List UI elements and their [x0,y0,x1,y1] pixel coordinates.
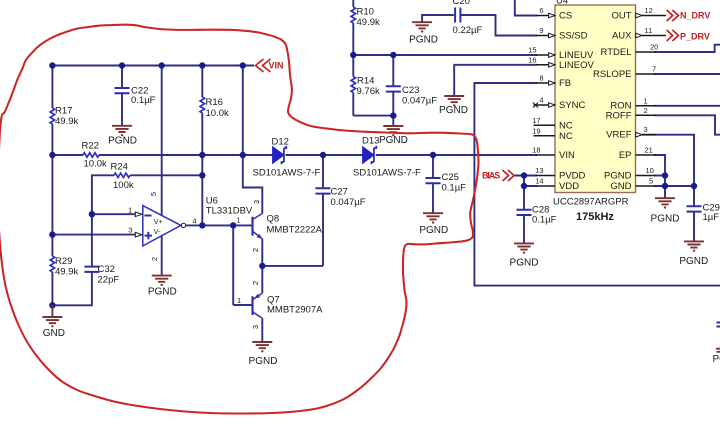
wire VIN to diode row [242,66,244,156]
capacitor C28 [517,210,532,215]
wire R16 branch [201,66,203,226]
svg-text:MMBT2907A: MMBT2907A [267,305,323,316]
svg-text:1µF: 1µF [703,212,720,223]
svg-text:0.1µF: 0.1µF [442,183,467,194]
wire C32 top [91,214,93,267]
IC left pin numbers [528,6,543,186]
wire Q8 collector jog [243,155,262,214]
svg-text:PVDD: PVDD [559,171,586,182]
svg-text:Q8: Q8 [267,214,280,225]
svg-text:1: 1 [237,296,241,305]
ground PGND under Q7 [252,342,272,351]
wire GND pin [654,185,694,187]
wire D13 cathode to IC VIN [376,154,537,156]
capacitor C32 [84,267,99,272]
wire LINEUV row [353,54,537,56]
svg-text:R17: R17 [55,106,72,117]
wire left rail middle [51,124,53,256]
wire R14/C23 bottom link [353,115,393,117]
svg-text:LINEOV: LINEOV [559,60,595,71]
svg-text:SYNC: SYNC [559,100,586,111]
IC right pin stubs [636,16,667,187]
IC left pin names [559,11,595,193]
capacitor C29 [687,206,702,211]
wire C20 left to ground [422,15,454,22]
svg-text:PGND: PGND [439,105,468,116]
svg-text:1: 1 [128,205,132,214]
svg-text:CS: CS [559,11,572,22]
svg-text:16: 16 [528,55,536,64]
net label P_DRV [667,30,710,42]
svg-text:3: 3 [644,125,648,134]
wire op-amp pin1 input [92,213,135,215]
ground PGND under C28 [514,243,534,252]
wire Q8 emitter down [261,239,263,266]
wire op-amp pin2 to ground [161,236,163,276]
wire R14 [352,55,354,116]
svg-text:BIAS: BIAS [482,171,500,181]
wire RON [654,105,720,107]
svg-text:SS/SD: SS/SD [559,31,588,42]
svg-text:RTDEL: RTDEL [601,47,632,58]
ground PGND under C25 [423,213,443,222]
svg-text:PGND: PGND [604,171,632,182]
svg-text:5: 5 [649,177,653,186]
resistor R10 [351,7,355,23]
wire FB feedback [474,83,720,286]
svg-text:175kHz: 175kHz [576,211,614,223]
svg-text:D12: D12 [272,137,289,148]
svg-text:V+: V+ [154,219,163,226]
IC output pin arrows [636,13,642,137]
svg-text:TL331DBV: TL331DBV [206,205,253,216]
svg-text:R16: R16 [206,97,223,108]
wire R29/C32 bottom link [52,272,92,305]
svg-text:10: 10 [646,166,654,175]
SYNC no-connect X [533,103,538,108]
svg-text:R24: R24 [111,161,128,172]
svg-text:PGND: PGND [148,286,177,297]
svg-text:10.0k: 10.0k [206,108,229,119]
op-amp U6 label [206,196,253,217]
capacitor C22 [115,88,130,93]
svg-text:UCC2897ARGPR: UCC2897ARGPR [553,197,629,208]
svg-text:2: 2 [644,106,648,115]
wire Q7 emitter up [261,266,263,293]
svg-text:5: 5 [149,192,158,196]
wire VIN rail [52,65,254,67]
svg-text:9: 9 [539,26,543,35]
svg-text:OUT: OUT [611,11,631,22]
wire R22 to D12 anode [99,154,273,156]
svg-text:C25: C25 [442,172,459,183]
wire RTDEL [654,45,720,52]
transistor Q7 [253,293,263,318]
red freehand annotation loop [0,25,479,414]
IC right pin numbers [644,6,659,186]
net label BIAS [482,170,514,181]
resistor R14 [351,77,355,93]
svg-text:2: 2 [150,257,159,261]
IC U4 body [553,0,636,223]
ground PGND under EP [655,198,675,207]
svg-text:N_DRV: N_DRV [680,11,710,21]
resistor R29 [50,256,54,272]
svg-text:11: 11 [645,26,653,35]
wire R10 top [352,0,354,55]
wire op-amp pin3 input [52,234,135,236]
wire C23 branch [392,55,394,126]
svg-text:4: 4 [192,216,196,225]
ground PGND under C20 [412,22,432,31]
svg-text:EP: EP [619,150,632,161]
svg-text:P_DRV: P_DRV [680,32,710,42]
svg-text:SD101AWS-7-F: SD101AWS-7-F [253,168,321,179]
svg-text:0.1µF: 0.1µF [532,215,557,226]
svg-text:AUX: AUX [612,31,632,42]
wire left rail lower [51,272,53,305]
svg-text:U4: U4 [556,0,568,7]
resistor R24 [114,173,130,177]
wire PGND pin [654,175,665,177]
svg-text:0.22µF: 0.22µF [453,25,483,36]
svg-text:VREF: VREF [606,130,632,141]
wire Q7 base [233,304,252,306]
svg-text:8: 8 [539,74,543,83]
svg-text:PGND: PGND [713,354,720,365]
svg-text:GND: GND [610,181,631,192]
svg-text:C20: C20 [453,0,470,7]
svg-text:PGND: PGND [679,256,708,267]
capacitor partial right edge upper [717,323,720,327]
IC left pin stubs [534,16,556,187]
wire C25 branch [432,155,434,213]
svg-text:0.1µF: 0.1µF [131,95,156,106]
diode D12 [273,146,287,164]
wire RSLOPE [654,73,720,75]
svg-text:21: 21 [645,146,653,155]
wire ROFF [654,115,720,134]
op-amp U6 triangle [143,206,181,246]
svg-text:3: 3 [128,226,132,235]
svg-text:2: 2 [251,281,260,285]
diode D13 [363,146,377,164]
transistor Q8 [253,214,263,240]
svg-text:9.76k: 9.76k [357,86,380,97]
svg-text:C27: C27 [331,187,348,198]
wire emitter junction row [262,265,323,267]
svg-text:14: 14 [535,177,543,186]
capacitor C25 [426,178,441,183]
svg-text:PGND: PGND [419,225,448,236]
ground PGND under C22 [112,126,132,135]
wire C27 branch [322,155,324,266]
svg-text:PGND: PGND [379,135,408,146]
wire C28 branch [523,186,525,243]
capacitor C20 [455,8,460,23]
wire CS up [515,0,537,16]
svg-text:13: 13 [535,166,543,175]
ground GND bottom left [42,305,62,326]
svg-text:NC: NC [559,131,573,142]
wire R24 left drop [92,175,114,214]
svg-text:49.9k: 49.9k [55,116,78,127]
svg-text:C32: C32 [98,264,115,275]
ground PGND under op-amp [152,276,172,285]
svg-text:MMBT2222A: MMBT2222A [267,224,323,235]
svg-text:18: 18 [532,146,540,155]
svg-text:VDD: VDD [559,181,579,192]
wire VREF to C29 [642,135,694,242]
ground labels [43,34,720,367]
svg-text:R22: R22 [82,141,99,152]
svg-text:100k: 100k [113,180,134,191]
svg-text:V-: V- [154,229,161,236]
svg-text:PGND: PGND [651,213,680,224]
op-amp input pin arrows [135,212,185,237]
wire R22 left [52,154,83,156]
svg-text:19: 19 [532,126,540,135]
svg-text:GND: GND [43,328,65,339]
svg-text:7: 7 [652,65,656,74]
svg-text:R14: R14 [357,76,374,87]
svg-text:ROFF: ROFF [606,110,632,121]
resistor R16 [200,97,204,113]
svg-text:NC: NC [559,120,573,131]
svg-text:R29: R29 [55,256,72,267]
svg-text:0.047µF: 0.047µF [331,197,366,208]
svg-text:D13: D13 [362,136,379,147]
svg-text:VIN: VIN [559,150,575,161]
wire EP to ground [654,155,665,198]
svg-text:RSLOPE: RSLOPE [593,69,632,80]
svg-text:PGND: PGND [510,257,539,268]
net label N_DRV [667,10,711,21]
resistor R22 [83,153,99,157]
svg-text:PGND: PGND [409,34,438,45]
svg-text:3: 3 [251,325,260,329]
wire transistor base rail [232,225,234,305]
svg-text:0.047µF: 0.047µF [402,95,437,106]
svg-text:22pF: 22pF [98,275,120,286]
wire op-amp pin5 V+ [161,66,163,216]
ground partial right edge [716,349,720,352]
op-amp V+/V- labels [154,219,163,236]
wire R24 right [130,174,202,176]
IC input pin arrows [549,13,555,107]
wire Q7 collector down [261,318,263,342]
capacitor C23 [386,86,401,91]
wire BIAS to PVDD [514,175,538,177]
wire PVDD/VDD link [524,176,537,187]
wire C22 branch [121,66,123,126]
ground PGND under C23 [383,126,403,135]
wire op-amp output row [186,224,253,226]
svg-text:1: 1 [644,96,648,105]
svg-text:49.9k: 49.9k [357,17,380,28]
svg-text:6: 6 [539,6,543,15]
svg-text:R10: R10 [357,7,374,18]
wire C20 right to SS/SD [461,15,538,36]
svg-text:FB: FB [559,78,571,89]
svg-text:49.9k: 49.9k [55,267,78,278]
pin number labels op-amp and transistors [128,192,261,329]
svg-text:10.0k: 10.0k [84,159,107,170]
capacitor C27 [316,188,331,193]
wire D12 cathode to D13 anode [286,154,364,156]
svg-text:12: 12 [645,6,653,15]
resistor R17 [50,108,54,124]
IC right pin names [593,11,632,193]
svg-text:17: 17 [532,116,540,125]
net label VIN [256,59,284,72]
wire left rail upper [51,66,53,109]
ground PGND under LINEOV [444,96,464,105]
svg-text:PGND: PGND [108,136,137,147]
wire LINEOV to ground [454,65,537,96]
svg-text:2: 2 [251,248,260,252]
svg-text:4: 4 [539,96,543,105]
svg-text:1: 1 [237,215,241,224]
svg-text:20: 20 [650,43,658,52]
svg-text:3: 3 [252,200,261,204]
svg-text:VIN: VIN [269,61,284,71]
ground PGND under C29 [684,241,704,250]
svg-text:SD101AWS-7-F: SD101AWS-7-F [353,168,421,179]
svg-text:15: 15 [528,46,536,55]
svg-text:PGND: PGND [249,356,278,367]
